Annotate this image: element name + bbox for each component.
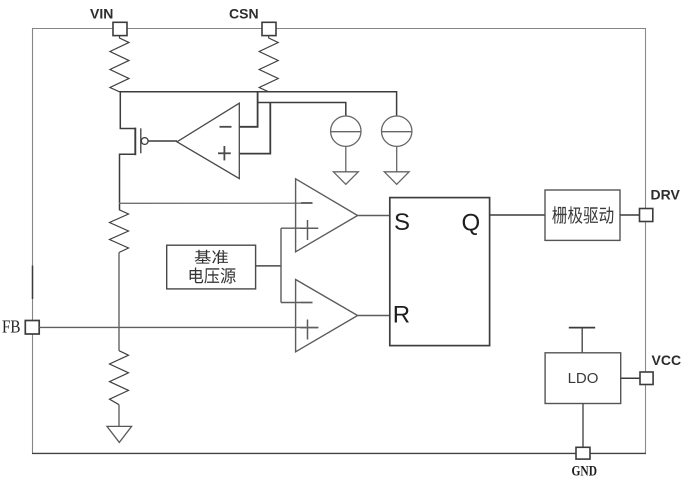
wire reference output stub [256, 265, 281, 267]
wire U3 output to R [358, 315, 390, 317]
SR latch U4 [390, 198, 490, 346]
resistor R2 (below CSN) [259, 36, 278, 92]
ground (divider) [107, 426, 132, 442]
wire reference riser [280, 228, 282, 302]
wire LDO to VCC pad [621, 377, 640, 379]
pin pad CSN [262, 22, 276, 35]
pin pad VCC [640, 372, 653, 385]
svg-text:CSN: CSN [229, 6, 259, 22]
svg-text:DRV: DRV [651, 187, 681, 203]
gate driver box (栅极驱动) [545, 190, 620, 240]
wire R4 to ground [118, 405, 120, 427]
wire net A (VIN/CSN sense rail to right current source) [120, 92, 397, 116]
wire LDO to GND pad [582, 404, 584, 448]
pin pad VIN [113, 22, 127, 35]
ground (I2) [384, 172, 409, 185]
op-amp U1 (left-pointing error amp) [177, 103, 239, 178]
current source I1 [331, 116, 361, 146]
svg-text:S: S [394, 209, 410, 236]
LDO box [545, 353, 621, 404]
svg-text:GND: GND [572, 464, 598, 479]
svg-text:R: R [393, 302, 410, 329]
wire Q output to gate driver [490, 214, 545, 216]
comparator U3 (lower, to R) [296, 280, 358, 352]
wire net B (tap to left current source) [258, 103, 346, 117]
wire V2 (net B down to U1 non-inverting input) [239, 103, 270, 154]
wire V1 (rail down to U1 inverting input) [239, 92, 257, 127]
resistor R4 (lower divider) [110, 351, 129, 405]
wire node line to U2 inverting input [119, 202, 313, 204]
wire gate driver to DRV pad [620, 214, 640, 216]
resistor R1 (below VIN) [110, 36, 129, 92]
reference source box (基准电压源) [167, 245, 256, 289]
svg-text:VCC: VCC [652, 352, 682, 368]
ground (I1) [333, 172, 358, 185]
wire riser to U3 inverting input [281, 302, 301, 304]
resistor R3 (upper divider) [110, 210, 129, 253]
svg-text:Q: Q [462, 210, 481, 237]
wire I1 to ground [345, 146, 347, 171]
comparator U2 (upper, to S) [296, 179, 358, 252]
internal supply tap above LDO [569, 328, 595, 353]
pin pad GND [576, 447, 590, 459]
wire gate of Q1 to U1 output [148, 140, 177, 142]
svg-text:VIN: VIN [90, 6, 113, 22]
wire I2 to ground [396, 146, 398, 171]
svg-text:FB: FB [2, 316, 21, 336]
outer chip boundary [32, 28, 646, 454]
wire divider column [118, 253, 120, 351]
wire U2 output to S [358, 215, 390, 217]
wire (dark segment on left border) [32, 266, 34, 300]
wire FB to U3 non-inverting input [39, 326, 318, 328]
current source I2 [382, 116, 412, 146]
transistor Q1 (pass PMOS) [120, 92, 149, 210]
pin pad DRV [640, 209, 653, 222]
wire riser to U2 non-inverting input [281, 227, 300, 229]
pin pad FB [25, 321, 39, 335]
svg-text:LDO: LDO [568, 370, 599, 387]
